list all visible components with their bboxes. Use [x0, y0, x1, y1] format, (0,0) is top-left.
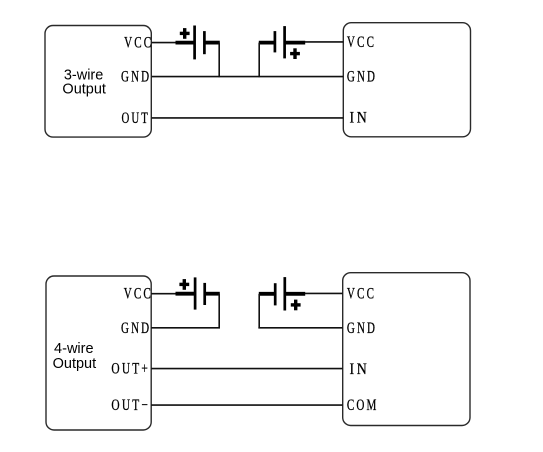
wire C4 to GND stub — [258, 294, 260, 329]
wire OUT- to COM — [151, 404, 343, 406]
svg-text:VCC: VCC — [124, 34, 153, 52]
svg-text:GND: GND — [347, 68, 377, 86]
svg-text:VCC: VCC — [347, 34, 376, 52]
wire GND stub from C4 to U4 — [258, 327, 342, 329]
svg-text:OUT+: OUT+ — [111, 360, 150, 378]
wire C1 to GND net — [218, 43, 220, 78]
wire GND stub from U3 to C3 — [151, 327, 220, 329]
svg-text:IN: IN — [350, 109, 370, 127]
svg-text:Output: Output — [53, 356, 97, 372]
plus sign of C2 — [290, 48, 300, 59]
capacitor C2 (polarized) — [259, 26, 305, 58]
receiver module box U2 — [343, 23, 470, 137]
capacitor C3 (polarized) — [176, 277, 220, 309]
svg-text:VCC: VCC — [124, 285, 153, 303]
receiver module box U4 — [343, 273, 470, 426]
svg-text:GND: GND — [347, 320, 377, 338]
plus sign of C3 — [179, 279, 189, 290]
svg-text:COM: COM — [347, 397, 379, 415]
4-wire output module box U3 — [46, 276, 151, 430]
svg-text:VCC: VCC — [347, 285, 376, 303]
svg-text:IN: IN — [350, 361, 370, 379]
svg-text:4-wire: 4-wire — [54, 341, 93, 357]
label 4-wire Output — [53, 341, 97, 372]
capacitor C4 (polarized) — [259, 277, 305, 310]
svg-text:Output: Output — [62, 82, 106, 98]
wire C4 to VCC of U4 — [305, 292, 343, 294]
wire VCC from U1 to C1 — [152, 42, 177, 44]
svg-text:OUT: OUT — [122, 110, 150, 128]
wire OUT to IN — [152, 117, 344, 119]
plus sign of C4 — [291, 300, 301, 311]
wire GND net U1 to U2 — [152, 76, 344, 78]
label 3-wire Output — [62, 67, 106, 97]
plus sign of C1 — [180, 28, 190, 39]
wire OUT+ to IN — [151, 368, 343, 370]
svg-text:GND: GND — [121, 68, 151, 86]
svg-text:GND: GND — [121, 320, 151, 338]
wire C2 to VCC of U2 — [305, 41, 344, 43]
svg-text:OUT−: OUT− — [111, 397, 150, 415]
wire C2 to GND net — [258, 43, 260, 78]
3-wire output module box U1 — [45, 26, 151, 138]
wire VCC from U3 to C3 — [151, 293, 176, 295]
wire C3 to GND stub — [218, 294, 220, 329]
capacitor C1 (polarized) — [176, 26, 220, 60]
